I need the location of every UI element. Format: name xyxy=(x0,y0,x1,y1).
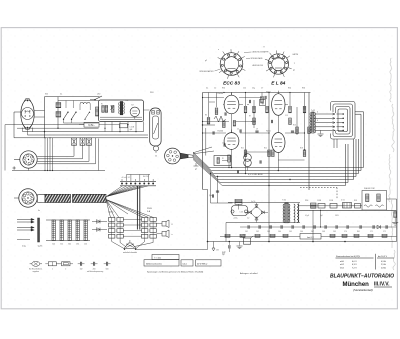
svg-text:C66: C66 xyxy=(300,231,303,233)
svg-text:Skl. 50: Skl. 50 xyxy=(143,176,148,178)
svg-text:R58: R58 xyxy=(354,200,357,202)
svg-text:ANSCHLUSS: ANSCHLUSS xyxy=(253,64,264,67)
svg-text:C9: C9 xyxy=(256,129,258,131)
svg-text:U50: U50 xyxy=(97,94,100,96)
svg-text:522: 522 xyxy=(52,244,55,246)
svg-text:6,0 V: 6,0 V xyxy=(352,261,357,263)
svg-text:a: a xyxy=(294,63,295,65)
svg-text:2: 2 xyxy=(65,268,66,270)
svg-text:C15: C15 xyxy=(285,115,288,117)
svg-text:W56: W56 xyxy=(305,200,308,202)
svg-text:bei 16,5 V: bei 16,5 V xyxy=(378,256,388,258)
svg-text:g1: g1 xyxy=(293,70,295,72)
svg-text:500: 500 xyxy=(106,268,109,270)
svg-text:R11: R11 xyxy=(241,148,244,150)
svg-text:R3: R3 xyxy=(205,115,207,117)
svg-text:C8: C8 xyxy=(222,143,224,145)
svg-text:C12: C12 xyxy=(243,88,246,90)
svg-text:1: 1 xyxy=(52,268,53,270)
svg-text:C62: C62 xyxy=(256,231,259,233)
svg-text:Dr 51: Dr 51 xyxy=(341,200,345,202)
svg-text:250V: 250V xyxy=(147,208,152,210)
svg-text:C3: C3 xyxy=(220,119,222,121)
svg-text:Tr 50: Tr 50 xyxy=(282,199,286,202)
svg-text:C70: C70 xyxy=(344,231,347,233)
svg-text:E L 84: E L 84 xyxy=(271,80,285,86)
svg-text:Stromaufnahme bei 6(12)V: Stromaufnahme bei 6(12)V xyxy=(336,255,361,258)
svg-text:4,5 V SKL.BRN: 4,5 V SKL.BRN xyxy=(248,174,263,176)
svg-text:6,3 V: 6,3 V xyxy=(352,264,357,266)
svg-text:405: 405 xyxy=(222,253,225,255)
svg-text:6,3V~: 6,3V~ xyxy=(88,124,95,127)
svg-text:mehrfach-kontakt: mehrfach-kontakt xyxy=(123,251,137,254)
svg-text:50: 50 xyxy=(155,156,157,158)
svg-text:4µF: 4µF xyxy=(130,129,133,131)
svg-text:7,2 V: 7,2 V xyxy=(352,267,357,269)
svg-text:C63: C63 xyxy=(267,231,270,233)
svg-text:0,9 A: 0,9 A xyxy=(381,260,386,263)
svg-text:EZ: EZ xyxy=(132,105,134,107)
svg-text:222: 222 xyxy=(84,244,87,246)
svg-text:C67: C67 xyxy=(311,231,314,233)
svg-text:bei 6 V: bei 6 V xyxy=(307,237,314,239)
svg-text:+C54+: +C54+ xyxy=(233,218,238,220)
svg-text:a: a xyxy=(218,49,219,51)
svg-text:42 W Wf/Lw: 42 W Wf/Lw xyxy=(197,263,208,265)
svg-text:5µ/16: 5µ/16 xyxy=(38,245,43,247)
svg-text:C68: C68 xyxy=(322,231,325,233)
svg-text:ECC 83: ECC 83 xyxy=(223,80,240,86)
svg-text:R54: R54 xyxy=(288,88,291,90)
svg-text:+50 a b + S 2: +50 a b + S 2 xyxy=(121,177,130,179)
svg-text:BLAUPUNKT–AUTORADIO: BLAUPUNKT–AUTORADIO xyxy=(330,273,394,279)
svg-text:C71: C71 xyxy=(370,231,373,233)
svg-text:R12: R12 xyxy=(264,148,267,150)
svg-text:ANSCHLUSSKAPPE: ANSCHLUSSKAPPE xyxy=(253,51,270,54)
svg-text:C69: C69 xyxy=(333,231,336,233)
svg-text:a: a xyxy=(172,234,173,236)
svg-text:R61: R61 xyxy=(357,231,360,233)
svg-text:25µ: 25µ xyxy=(252,88,255,90)
svg-text:W52: W52 xyxy=(243,235,247,237)
svg-text:(Spk): (Spk) xyxy=(209,195,213,197)
svg-text:C59B: C59B xyxy=(329,200,333,202)
svg-text:0,1: 0,1 xyxy=(206,88,208,90)
svg-text:mit Betriebsspannung: mit Betriebsspannung xyxy=(87,270,103,273)
svg-text:C2: C2 xyxy=(214,88,216,90)
svg-text:R9: R9 xyxy=(262,104,264,106)
svg-text:R7: R7 xyxy=(249,116,251,118)
svg-text:Gr 50: Gr 50 xyxy=(251,200,255,203)
svg-text:C61: C61 xyxy=(245,231,248,233)
svg-text:Rö50b: Rö50b xyxy=(218,130,224,132)
svg-text:132: 132 xyxy=(80,268,83,270)
svg-text:Rö50a: Rö50a xyxy=(218,93,225,95)
svg-text:Rö52: Rö52 xyxy=(266,92,271,94)
svg-text:2,8 A: 2,8 A xyxy=(381,266,386,269)
svg-text:R18: R18 xyxy=(300,148,303,150)
svg-text:0,1: 0,1 xyxy=(60,94,62,96)
svg-text:C72: C72 xyxy=(383,231,386,233)
svg-text:6: 6 xyxy=(317,120,318,122)
svg-text:München: München xyxy=(343,282,370,288)
svg-text:S50: S50 xyxy=(45,94,48,96)
svg-text:R50: R50 xyxy=(222,88,225,90)
svg-text:C7: C7 xyxy=(261,88,263,90)
svg-text:g2: g2 xyxy=(205,60,207,62)
svg-text:0,4-5: 0,4-5 xyxy=(183,263,187,265)
svg-text:C58B: C58B xyxy=(317,200,321,202)
svg-text:(Widerstandswerte): (Widerstandswerte) xyxy=(146,262,162,265)
svg-text:Tr51: Tr51 xyxy=(125,100,128,102)
svg-text:342: 342 xyxy=(68,244,71,246)
svg-text:4x: 4x xyxy=(38,210,40,212)
svg-text:C5: C5 xyxy=(237,129,239,131)
svg-text:W53: W53 xyxy=(150,92,154,94)
svg-text:≙ 1 kΩ: ≙ 1 kΩ xyxy=(154,256,161,259)
svg-text:(Verstärkerteil): (Verstärkerteil) xyxy=(353,288,373,292)
svg-text:100 Ω 2 W: 100 Ω 2 W xyxy=(364,188,375,190)
svg-text:0: 0 xyxy=(317,112,318,114)
svg-text:232: 232 xyxy=(76,244,79,246)
svg-text:R16: R16 xyxy=(293,125,296,127)
svg-text:R56: R56 xyxy=(302,88,305,90)
svg-text:Tr.52: Tr.52 xyxy=(311,110,315,112)
svg-text:Anfragen: schalten!: Anfragen: schalten! xyxy=(240,272,258,275)
svg-text:SPIEGELRAND: SPIEGELRAND xyxy=(251,57,264,60)
svg-text:C 53: C 53 xyxy=(240,211,243,213)
svg-text:2,5 A: 2,5 A xyxy=(381,263,386,266)
svg-text:512: 512 xyxy=(60,244,63,246)
svg-text:angeben: angeben xyxy=(33,271,40,273)
svg-text:C64: C64 xyxy=(278,231,281,233)
svg-text:C65: C65 xyxy=(289,231,292,233)
svg-text:2,2: 2,2 xyxy=(247,218,249,220)
svg-text:SPIEGELRASTER: SPIEGELRASTER xyxy=(199,70,214,73)
svg-text:KAPPE: KAPPE xyxy=(293,53,300,56)
svg-text:Rö51: Rö51 xyxy=(266,130,271,132)
svg-text:C 51B: C 51B xyxy=(130,126,134,128)
svg-text:Spannungen und Ströme gemessen: Spannungen und Ströme gemessen mit Multa… xyxy=(147,271,203,274)
svg-text:0,1µF: 0,1µF xyxy=(305,215,309,217)
